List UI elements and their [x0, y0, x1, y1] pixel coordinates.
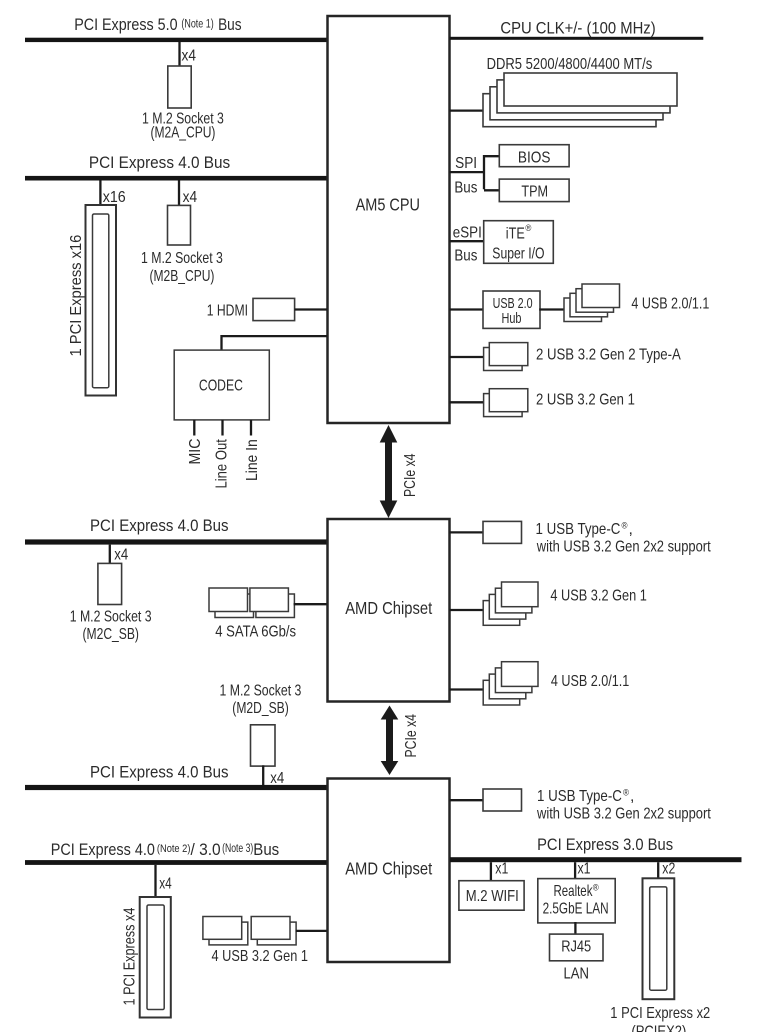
- arrow PCIe x4 (CPU - chipset1): [380, 425, 398, 518]
- svg-text:(Note 1): (Note 1): [181, 19, 213, 31]
- box M2D_SB: [251, 725, 276, 766]
- svg-text:TPM: TPM: [521, 182, 548, 200]
- svg-text:4 USB 3.2 Gen 1: 4 USB 3.2 Gen 1: [212, 948, 309, 965]
- wire Line Out stub: [221, 420, 223, 436]
- svg-text:SPI: SPI: [455, 155, 477, 172]
- svg-text:2.5GbE LAN: 2.5GbE LAN: [543, 900, 609, 917]
- wire x4 to M2A: [178, 42, 180, 67]
- svg-text:(M2C_SB): (M2C_SB): [83, 624, 139, 642]
- box TPM: [499, 179, 569, 202]
- slot PCI Express x2 inner: [650, 887, 667, 990]
- slot PCI Express x16 inner: [93, 214, 109, 388]
- box M2A_CPU: [168, 66, 191, 108]
- wire x4 to M2C: [109, 545, 111, 565]
- box M2B_CPU: [168, 205, 191, 245]
- svg-text:4 USB 2.0/1.1: 4 USB 2.0/1.1: [551, 672, 630, 690]
- box USB Type-C 1: [483, 521, 522, 543]
- wire USB pair to chipset2: [296, 930, 328, 932]
- box USB 2.0 Hub: [483, 291, 540, 328]
- DIMM stack: [483, 73, 677, 127]
- SATA icons: [209, 588, 294, 618]
- wire eSPI: [450, 240, 485, 242]
- svg-text:BIOS: BIOS: [518, 150, 551, 167]
- wire x4 to PCIEX4 slot: [154, 865, 156, 898]
- svg-text:/ 3.0: / 3.0: [191, 840, 221, 859]
- wire type-C 2: [450, 799, 484, 801]
- svg-text:LAN: LAN: [564, 966, 589, 983]
- svg-text:iTE: iTE: [506, 224, 525, 242]
- box CODEC: [174, 350, 269, 420]
- bus PCIe 4.0/3.0: [25, 860, 327, 865]
- svg-text:1 PCI Express x4: 1 PCI Express x4: [121, 908, 139, 1006]
- svg-text:with USB 3.2 Gen 2x2 support: with USB 3.2 Gen 2x2 support: [536, 805, 711, 822]
- svg-text:x4: x4: [270, 770, 284, 787]
- svg-text:Bus: Bus: [454, 248, 477, 265]
- svg-text:AMD Chipset: AMD Chipset: [345, 859, 432, 878]
- bus PCIe 3.0: [450, 857, 742, 862]
- svg-text:(M2A_CPU): (M2A_CPU): [151, 123, 216, 141]
- svg-text:®: ®: [622, 520, 628, 531]
- svg-text:PCI Express 4.0 Bus: PCI Express 4.0 Bus: [90, 516, 229, 535]
- svg-text:PCI Express 4.0 Bus: PCI Express 4.0 Bus: [89, 153, 230, 172]
- wire Realtek to RJ45: [574, 922, 576, 935]
- svg-text:(M2B_CPU): (M2B_CPU): [150, 266, 215, 284]
- svg-text:(Note 3): (Note 3): [222, 843, 253, 855]
- bus PCIe 4.0 bottom: [25, 785, 327, 790]
- stack 4 USB 2.0/1.1 (CPU): [564, 284, 620, 322]
- svg-text:PCI Express 4.0 Bus: PCI Express 4.0 Bus: [90, 763, 229, 782]
- svg-text:DDR5 5200/4800/4400 MT/s: DDR5 5200/4800/4400 MT/s: [487, 56, 653, 74]
- box USB Type-C 2: [483, 789, 522, 811]
- svg-text:x16: x16: [103, 190, 126, 207]
- svg-text:4 USB 2.0/1.1: 4 USB 2.0/1.1: [631, 294, 709, 312]
- svg-text:1 PCI Express x2: 1 PCI Express x2: [610, 1005, 710, 1023]
- box BIOS: [499, 145, 569, 167]
- wire MIC stub: [193, 420, 195, 436]
- CPU box: [328, 16, 450, 423]
- wire M2D to bus: [262, 765, 264, 785]
- wire HDMI to CPU: [295, 308, 327, 310]
- box Realtek LAN: [538, 879, 615, 923]
- wire CPU CLK line: [450, 37, 704, 40]
- wire USB hub to CPU: [450, 308, 484, 310]
- stack 4 USB 3.2 Gen 1 (chipset1): [483, 582, 538, 625]
- stack 2 USB 3.2 Gen 2 Type-A: [484, 343, 528, 371]
- svg-text:1 M.2 Socket 3: 1 M.2 Socket 3: [70, 607, 152, 625]
- slot PCI Express x16 outer: [86, 205, 117, 396]
- svg-text:x4: x4: [114, 547, 128, 564]
- svg-text:(PCIEX2): (PCIEX2): [631, 1023, 686, 1032]
- svg-text:2 USB 3.2 Gen 2 Type-A: 2 USB 3.2 Gen 2 Type-A: [536, 347, 681, 364]
- svg-text:with USB 3.2 Gen 2x2 support: with USB 3.2 Gen 2x2 support: [536, 538, 711, 555]
- wire x4 to M2B: [178, 181, 180, 207]
- slot PCI Express x4 outer: [140, 897, 171, 1018]
- wire gen2 stack: [450, 356, 485, 358]
- bus PCIe 5.0: [25, 38, 327, 42]
- bus PCIe 4.0 (chipset1): [25, 539, 327, 544]
- box RJ45: [550, 934, 604, 961]
- wire SATA to chipset: [294, 603, 328, 605]
- svg-text:x1: x1: [578, 859, 591, 877]
- wire 4 USB 3.2 gen1 stack: [450, 609, 485, 611]
- svg-text:(Note 2): (Note 2): [157, 843, 191, 855]
- svg-text:1 HDMI: 1 HDMI: [207, 301, 248, 319]
- arrow PCIe x4 (chipset1 - chipset2): [381, 706, 399, 776]
- svg-text:AMD Chipset: AMD Chipset: [345, 599, 432, 618]
- wire x1 to Realtek: [574, 862, 576, 879]
- svg-text:M.2 WIFI: M.2 WIFI: [466, 888, 519, 905]
- svg-text:®: ®: [525, 222, 531, 233]
- svg-text:4 SATA 6Gb/s: 4 SATA 6Gb/s: [215, 624, 296, 641]
- svg-text:PCI Express 5.0: PCI Express 5.0: [74, 16, 178, 34]
- wire gen1 stack: [450, 401, 485, 403]
- svg-text:Bus: Bus: [253, 840, 279, 859]
- stack 2 USB 3.2 Gen 1: [484, 389, 528, 417]
- USB 3.2 Gen 1 pair icons (bottom): [203, 917, 296, 945]
- box HDMI: [253, 298, 295, 320]
- box iTE Super I/O: [484, 221, 554, 264]
- svg-text:x2: x2: [662, 859, 675, 877]
- svg-text:1 M.2 Socket 3: 1 M.2 Socket 3: [220, 681, 302, 699]
- svg-text:Line In: Line In: [244, 439, 261, 481]
- wire x1 to M.2 WIFI: [490, 862, 492, 881]
- slot PCI Express x4 inner: [147, 905, 164, 1010]
- svg-text:4 USB 3.2 Gen 1: 4 USB 3.2 Gen 1: [550, 587, 647, 604]
- svg-text:Realtek: Realtek: [554, 882, 593, 899]
- svg-text:Line Out: Line Out: [214, 439, 231, 488]
- svg-text:x4: x4: [183, 189, 197, 206]
- wire Line In stub: [250, 420, 252, 436]
- svg-text:x1: x1: [495, 859, 508, 877]
- svg-text:1 USB Type-C: 1 USB Type-C: [536, 521, 621, 538]
- svg-text:RJ45: RJ45: [561, 938, 591, 955]
- svg-text:1 PCI Express x16: 1 PCI Express x16: [67, 235, 85, 357]
- svg-text:eSPI: eSPI: [453, 225, 482, 242]
- svg-text:Super I/O: Super I/O: [492, 244, 544, 262]
- svg-text:Hub: Hub: [502, 309, 522, 326]
- box M2C_SB: [98, 563, 122, 604]
- wire x16 to slot: [99, 181, 101, 207]
- wire CODEC to CPU: [222, 336, 328, 351]
- svg-text:®: ®: [623, 787, 629, 798]
- bus PCIe 4.0 top: [25, 176, 327, 181]
- wire x2 to PCIEX2 slot: [657, 862, 659, 879]
- svg-text:1 M.2 Socket 3: 1 M.2 Socket 3: [141, 249, 223, 267]
- wire hub to stack: [539, 308, 565, 310]
- chipset1 box: [328, 519, 450, 702]
- svg-text:Bus: Bus: [218, 16, 242, 35]
- svg-text:PCI Express 4.0: PCI Express 4.0: [51, 841, 155, 859]
- svg-text:MIC: MIC: [187, 438, 204, 464]
- svg-text:1 USB Type-C: 1 USB Type-C: [537, 788, 622, 805]
- svg-text:CODEC: CODEC: [199, 376, 243, 394]
- svg-text:2 USB 3.2 Gen 1: 2 USB 3.2 Gen 1: [536, 392, 635, 409]
- wire to DIMMs: [450, 109, 485, 111]
- svg-text:(M2D_SB): (M2D_SB): [232, 699, 288, 717]
- slot PCI Express x2 outer: [643, 878, 675, 999]
- svg-text:PCIe x4: PCIe x4: [402, 714, 420, 758]
- chipset2 box: [328, 779, 450, 963]
- wire type-C 1: [450, 531, 484, 533]
- svg-text:®: ®: [593, 882, 599, 893]
- stack 4 USB 2.0/1.1 (chipset1): [483, 662, 538, 705]
- svg-text:PCI Express 3.0 Bus: PCI Express 3.0 Bus: [537, 836, 673, 854]
- svg-text:PCIe x4: PCIe x4: [401, 453, 419, 497]
- svg-text:,: ,: [630, 788, 634, 805]
- svg-text:x4: x4: [182, 48, 196, 65]
- svg-text:x4: x4: [159, 875, 172, 892]
- svg-text:CPU CLK+/- (100 MHz): CPU CLK+/- (100 MHz): [500, 20, 655, 38]
- wire SPI tree: [450, 155, 501, 190]
- svg-text:AM5 CPU: AM5 CPU: [356, 195, 420, 215]
- svg-text:Bus: Bus: [454, 180, 477, 197]
- svg-text:,: ,: [629, 521, 633, 538]
- wire 4 USB 2.0 stack: [450, 688, 485, 690]
- box M.2 WIFI: [459, 881, 524, 911]
